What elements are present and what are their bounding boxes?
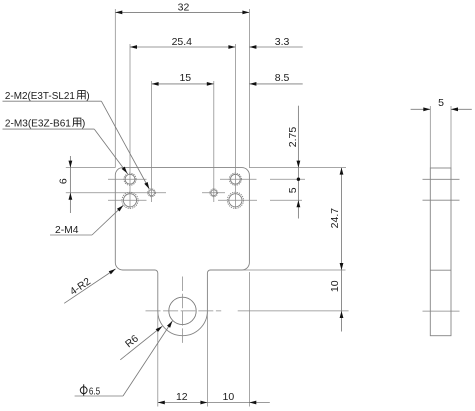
centerline horizontal M2 right bbox=[202, 192, 225, 194]
extension line right edge down bbox=[248, 272, 250, 407]
centerline horizontal M4 right bbox=[218, 199, 257, 201]
dimension 6 bbox=[58, 156, 73, 213]
extension line M2 row left bbox=[66, 192, 166, 194]
dimension 2.75 bbox=[287, 106, 300, 219]
side view centerline M4 row bbox=[423, 199, 460, 201]
dimension 15 bbox=[152, 72, 214, 86]
side view outline bbox=[430, 168, 451, 336]
svg-text:10: 10 bbox=[329, 280, 341, 292]
centerline horizontal phi6.5 bbox=[146, 310, 222, 312]
hole phi6.5 bbox=[169, 297, 196, 324]
body outline bbox=[115, 168, 249, 336]
centerline vertical left holes bbox=[129, 44, 131, 209]
centerline vertical M2 right bbox=[213, 81, 215, 202]
dimension 5 side bbox=[411, 97, 472, 111]
hole M4 left bbox=[122, 192, 138, 208]
centerline vertical right holes bbox=[234, 44, 236, 209]
side view centerline hole row bbox=[423, 310, 460, 312]
extension line left edge up bbox=[114, 9, 116, 168]
hole M3 left bbox=[124, 173, 136, 185]
extension line M3 row dim bbox=[270, 178, 305, 180]
centerline horizontal M3 left bbox=[108, 178, 147, 180]
svg-text:32: 32 bbox=[178, 2, 190, 14]
extension line side left bbox=[429, 106, 431, 168]
centerline horizontal M4 left bbox=[108, 199, 147, 201]
dimension 24.7 bbox=[329, 168, 344, 332]
svg-text:5: 5 bbox=[438, 97, 444, 109]
label phi6.5 leader bbox=[75, 320, 174, 397]
extension line top edge right bbox=[249, 167, 346, 169]
extension line shoulder right bbox=[242, 269, 346, 271]
extension line top edge left bbox=[66, 167, 116, 169]
label R6 leader bbox=[120, 325, 163, 360]
dimension 10 bottom bbox=[223, 391, 270, 405]
svg-text:6.5: 6.5 bbox=[89, 386, 101, 397]
extension line side right bbox=[450, 106, 452, 168]
dimension 3.3 bbox=[249, 36, 302, 49]
svg-text:2-M2(E3T-SL21: 2-M2(E3T-SL21 bbox=[5, 91, 75, 102]
hole M2 left bbox=[148, 189, 156, 197]
extension line tab left down bbox=[157, 311, 159, 407]
svg-text:2-M4: 2-M4 bbox=[55, 225, 79, 236]
svg-text:R6: R6 bbox=[124, 333, 141, 350]
svg-text:24.7: 24.7 bbox=[329, 208, 341, 229]
svg-text:): ) bbox=[86, 91, 89, 102]
side view shoulder line bbox=[430, 269, 451, 271]
label 2-M2 leader bbox=[3, 91, 151, 190]
centerline horizontal M3 right bbox=[220, 178, 257, 180]
dimension 8.5 bbox=[249, 72, 302, 86]
svg-text:): ) bbox=[82, 118, 85, 129]
svg-text:3.3: 3.3 bbox=[275, 36, 290, 48]
svg-text:5: 5 bbox=[287, 187, 299, 193]
label 2-M4 leader bbox=[50, 204, 125, 236]
svg-text:6: 6 bbox=[58, 178, 70, 184]
side view centerline M3 row bbox=[423, 178, 460, 180]
svg-text:25.4: 25.4 bbox=[172, 36, 193, 48]
centerline vertical phi6.5 bbox=[182, 277, 184, 346]
extension line right edge up bbox=[248, 9, 250, 168]
svg-text:2.75: 2.75 bbox=[287, 127, 299, 148]
extension line tab right down bbox=[206, 311, 208, 407]
svg-text:15: 15 bbox=[179, 72, 191, 84]
dimension 12 bbox=[158, 391, 250, 405]
dimension 25.4 bbox=[130, 36, 235, 49]
hole M2 right bbox=[210, 189, 218, 197]
hole M4 right bbox=[227, 192, 243, 208]
svg-text:10: 10 bbox=[223, 391, 235, 403]
label 2-M3 leader bbox=[3, 118, 129, 174]
dimension 10 right bbox=[329, 280, 344, 318]
extension line hole row right bbox=[238, 310, 349, 312]
centerline vertical M2 left bbox=[151, 81, 153, 202]
dimension 32 bbox=[115, 2, 249, 15]
svg-text:12: 12 bbox=[176, 391, 188, 403]
svg-text:2-M3(E3Z-B61: 2-M3(E3Z-B61 bbox=[5, 118, 71, 129]
label 4-R2 leader bbox=[64, 267, 116, 303]
hole M3 right bbox=[229, 173, 241, 185]
svg-text:4-R2: 4-R2 bbox=[68, 276, 93, 298]
extension line M4 row dim bbox=[270, 199, 302, 201]
svg-text:8.5: 8.5 bbox=[275, 72, 290, 84]
